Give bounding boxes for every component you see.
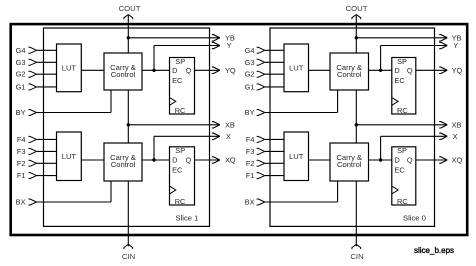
wire Carry to FF D (lower) slice1: [142, 159, 170, 161]
svg-text:EC: EC: [394, 165, 405, 174]
Carry &amp; Control block (lower) slice0: [330, 143, 369, 181]
svg-text:F1: F1: [17, 171, 26, 180]
svg-text:F3: F3: [17, 147, 26, 156]
COUT carry-chain line slice0: [355, 15, 357, 53]
svg-text:Y: Y: [453, 41, 458, 50]
svg-text:EC: EC: [172, 76, 183, 85]
input F2 slice1: [17, 159, 57, 168]
svg-text:RC: RC: [397, 197, 408, 206]
svg-text:G2: G2: [245, 70, 255, 79]
svg-text:EC: EC: [172, 165, 183, 174]
svg-text:XQ: XQ: [225, 156, 236, 165]
output XB wire+arrow slice0: [356, 120, 461, 129]
output XQ wire+arrow slice0: [416, 156, 463, 165]
svg-text:F2: F2: [17, 159, 26, 168]
input F4 slice0: [246, 135, 284, 144]
svg-text:D: D: [394, 66, 399, 75]
svg-text:F4: F4: [17, 135, 26, 144]
input F1 slice1: [17, 171, 57, 180]
svg-text:X: X: [453, 132, 458, 141]
slice0 bounding box (Slice 0): [270, 28, 435, 226]
svg-text:RC: RC: [175, 197, 186, 206]
svg-text:SP: SP: [397, 146, 407, 155]
svg-text:F3: F3: [246, 147, 255, 156]
svg-text:Y: Y: [227, 41, 232, 50]
svg-text:CIN: CIN: [122, 252, 135, 261]
svg-text:BX: BX: [16, 198, 26, 207]
flip-flop upper (Y) slice0: [392, 57, 416, 115]
outer CLB border frame: [11, 24, 468, 235]
svg-text:D: D: [172, 66, 177, 75]
svg-text:LUT: LUT: [62, 152, 77, 161]
wire LUT-F to Carry slice1: [81, 159, 104, 161]
output YQ wire+arrow slice1: [195, 66, 236, 75]
CIN arrowhead slice1: [124, 244, 133, 249]
input G4 slice1: [16, 46, 57, 55]
svg-text:Slice 1: Slice 1: [176, 213, 199, 222]
input G2 slice1: [16, 70, 57, 79]
slice1 bounding box (Slice 1): [44, 28, 210, 226]
wire LUT-G to Carry slice1: [81, 69, 104, 71]
flip-flop lower (X) slice1: [170, 146, 195, 206]
input F1 slice0: [246, 171, 284, 180]
input G2 slice0: [245, 70, 284, 79]
input BX slice0: [245, 181, 338, 207]
input BY slice1: [16, 90, 111, 117]
svg-text:BY: BY: [16, 108, 26, 117]
junction node X/D slice0: [379, 158, 382, 161]
CIN carry-chain line slice0: [355, 181, 357, 246]
svg-text:SP: SP: [175, 146, 185, 155]
output YB wire+arrow slice1: [128, 33, 235, 42]
svg-text:G2: G2: [16, 70, 26, 79]
svg-text:Slice 0: Slice 0: [403, 213, 426, 222]
svg-text:G3: G3: [16, 58, 26, 67]
output X wire+arrow slice0: [381, 132, 458, 160]
wire Carry to FF D (upper) slice0: [369, 69, 392, 71]
svg-text:F1: F1: [246, 171, 255, 180]
carry-chain line between carry blocks slice0: [355, 90, 357, 143]
svg-text:COUT: COUT: [346, 4, 368, 13]
svg-text:RC: RC: [397, 106, 408, 115]
input F3 slice0: [246, 147, 284, 156]
COUT carry-chain line slice1: [127, 15, 129, 53]
svg-text:Control: Control: [111, 160, 136, 169]
junction node YB branch slice0: [355, 36, 358, 39]
LUT (F inputs) slice0: [284, 132, 309, 181]
svg-text:D: D: [172, 156, 177, 165]
svg-text:LUT: LUT: [289, 152, 304, 161]
input G3 slice1: [16, 58, 57, 67]
input G1 slice1: [16, 82, 57, 91]
wire LUT-G to Carry slice0: [309, 69, 331, 71]
svg-text:YQ: YQ: [452, 66, 463, 75]
junction node Y/D slice1: [152, 69, 155, 72]
junction node XB branch slice0: [355, 123, 358, 126]
svg-text:Control: Control: [337, 70, 362, 79]
junction node X/D slice1: [152, 158, 155, 161]
wire Carry to FF D (upper) slice1: [142, 69, 170, 71]
output XB wire+arrow slice1: [128, 120, 235, 129]
CIN arrowhead slice0: [352, 244, 361, 249]
svg-text:F4: F4: [246, 135, 255, 144]
svg-text:SP: SP: [397, 57, 407, 66]
output Y wire+arrow slice1: [154, 41, 232, 70]
svg-text:Q: Q: [407, 66, 413, 75]
input F4 slice1: [17, 135, 57, 144]
output YQ wire+arrow slice0: [416, 66, 463, 75]
input F2 slice0: [246, 159, 284, 168]
input BY slice0: [245, 90, 338, 117]
input G4 slice0: [245, 46, 284, 55]
svg-text:LUT: LUT: [62, 63, 77, 72]
flip-flop lower (X) slice0: [392, 146, 416, 206]
svg-text:Q: Q: [407, 156, 413, 165]
svg-text:G4: G4: [245, 46, 255, 55]
svg-text:XB: XB: [452, 120, 462, 129]
svg-text:XQ: XQ: [452, 156, 463, 165]
svg-text:BX: BX: [245, 198, 255, 207]
svg-text:X: X: [226, 132, 231, 141]
CIN carry-chain line slice1: [127, 181, 129, 246]
Carry &amp; Control block (upper) slice0: [330, 53, 369, 90]
Carry &amp; Control block (upper) slice1: [104, 53, 142, 90]
svg-text:Q: Q: [186, 66, 192, 75]
COUT arrowhead slice1: [124, 15, 133, 20]
input G1 slice0: [245, 82, 284, 91]
svg-text:RC: RC: [175, 106, 186, 115]
LUT (F inputs) slice1: [57, 132, 82, 181]
junction node Y/D slice0: [379, 69, 382, 72]
output XQ wire+arrow slice1: [195, 156, 236, 165]
COUT arrowhead slice0: [352, 15, 361, 20]
svg-text:G1: G1: [16, 82, 26, 91]
Carry &amp; Control block (lower) slice1: [104, 143, 142, 181]
junction node XB branch slice1: [127, 123, 130, 126]
output X wire+arrow slice1: [154, 132, 231, 160]
LUT (G inputs) slice1: [57, 44, 82, 92]
svg-text:slice_b.eps: slice_b.eps: [414, 246, 454, 255]
LUT (G inputs) slice0: [284, 44, 309, 92]
input BX slice1: [16, 181, 111, 207]
svg-text:G4: G4: [16, 46, 26, 55]
input F3 slice1: [17, 147, 57, 156]
svg-text:G1: G1: [245, 82, 255, 91]
svg-text:BY: BY: [245, 108, 255, 117]
junction node YB branch slice1: [127, 36, 130, 39]
carry-chain line between carry blocks slice1: [127, 90, 129, 143]
svg-text:EC: EC: [394, 76, 405, 85]
flip-flop upper (Y) slice1: [170, 57, 195, 115]
wire LUT-F to Carry slice0: [309, 159, 331, 161]
output Y wire+arrow slice0: [381, 41, 459, 70]
svg-text:D: D: [394, 156, 399, 165]
svg-text:LUT: LUT: [289, 63, 304, 72]
svg-text:Control: Control: [337, 160, 362, 169]
svg-text:F2: F2: [246, 159, 255, 168]
svg-text:XB: XB: [225, 120, 235, 129]
input G3 slice0: [245, 58, 284, 67]
svg-text:Q: Q: [186, 156, 192, 165]
svg-text:G3: G3: [245, 58, 255, 67]
svg-text:COUT: COUT: [119, 4, 141, 13]
svg-text:YQ: YQ: [225, 66, 236, 75]
output YB wire+arrow slice0: [356, 33, 461, 42]
svg-text:Control: Control: [111, 70, 136, 79]
svg-text:CIN: CIN: [350, 252, 363, 261]
wire Carry to FF D (lower) slice0: [369, 159, 392, 161]
svg-text:SP: SP: [175, 57, 185, 66]
